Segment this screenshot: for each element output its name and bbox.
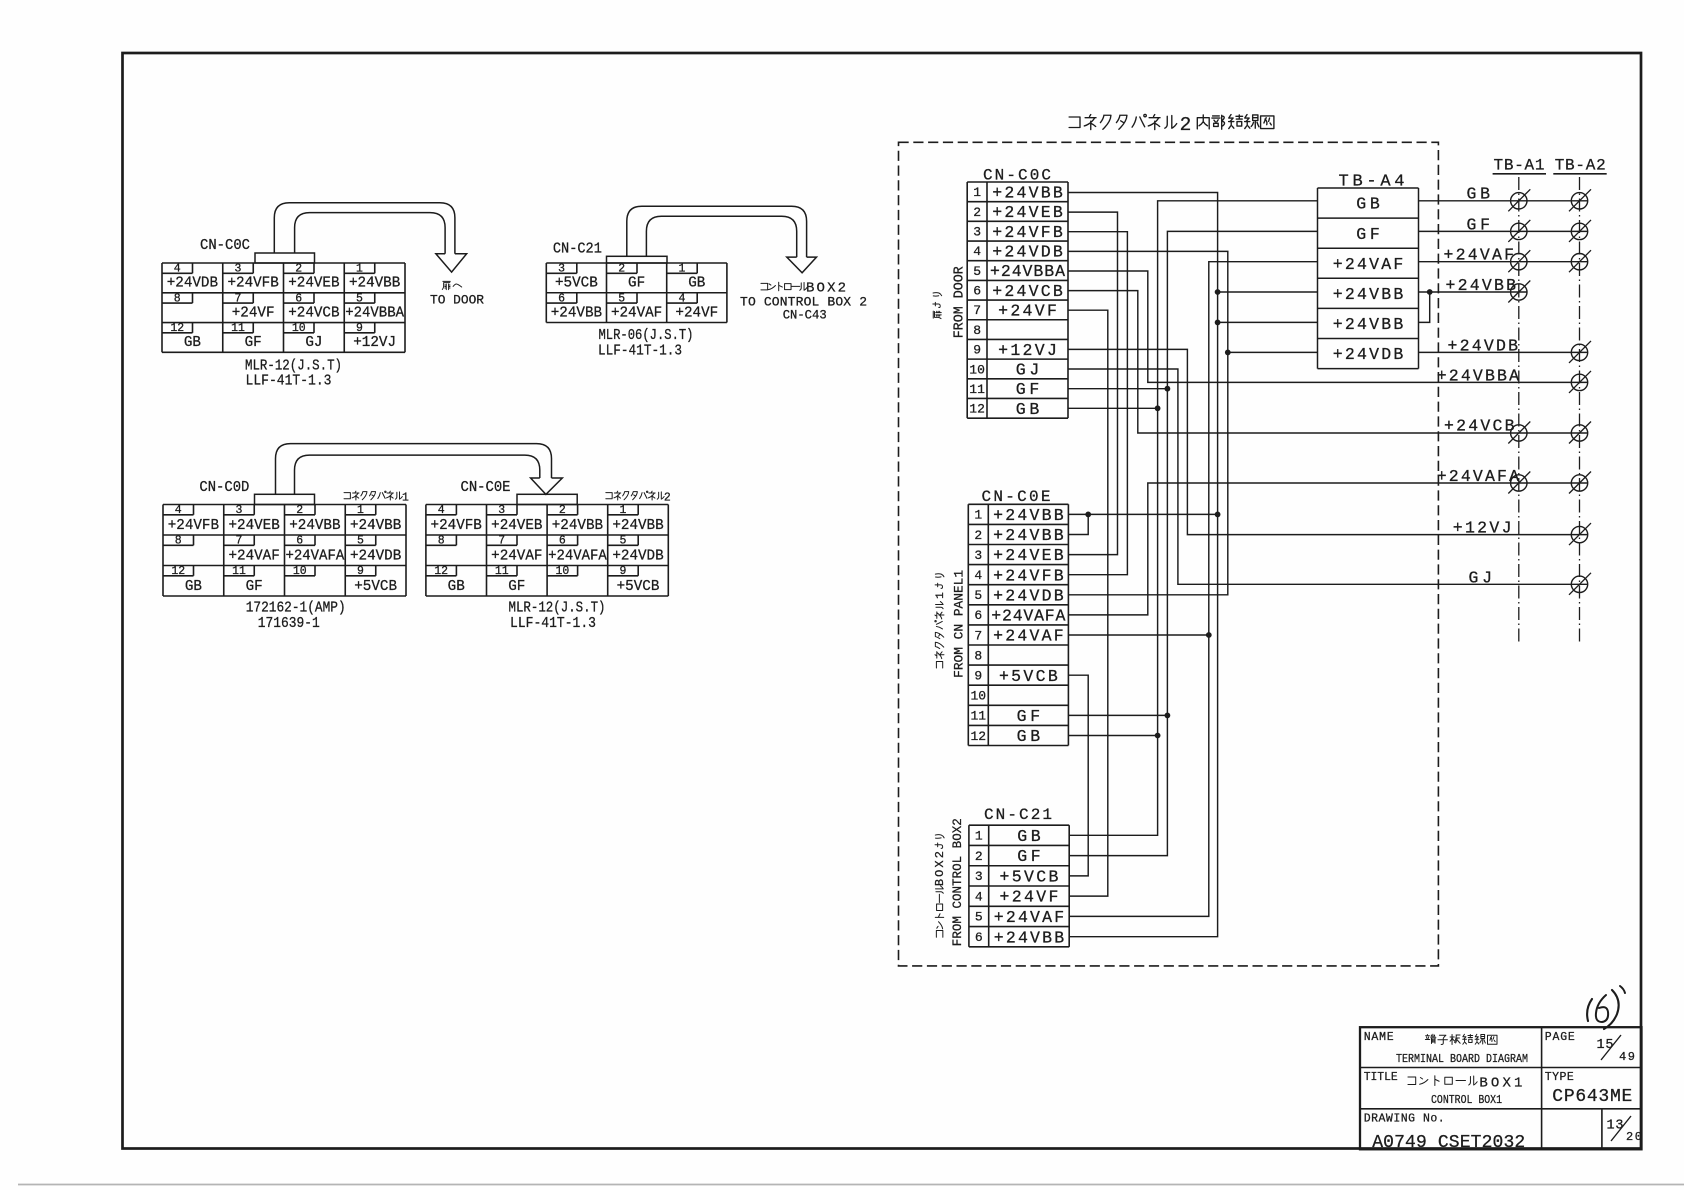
svg-text:4: 4 bbox=[973, 244, 981, 259]
svg-text:+24VF: +24VF bbox=[232, 305, 275, 321]
svg-text:12: 12 bbox=[171, 565, 185, 578]
svg-text:CN-C21: CN-C21 bbox=[553, 242, 602, 258]
svg-text:4: 4 bbox=[974, 568, 982, 583]
svg-text:7: 7 bbox=[498, 535, 505, 548]
svg-text:1: 1 bbox=[974, 508, 982, 523]
svg-text:10: 10 bbox=[969, 362, 985, 377]
svg-text:4: 4 bbox=[175, 504, 182, 517]
svg-text:+24VDB: +24VDB bbox=[167, 276, 219, 292]
svg-text:+5VCB: +5VCB bbox=[354, 579, 397, 595]
svg-text:1: 1 bbox=[678, 263, 685, 276]
svg-text:CN-C0D: CN-C0D bbox=[199, 480, 249, 496]
svg-text:9: 9 bbox=[619, 565, 626, 578]
svg-text:GB: GB bbox=[688, 276, 705, 292]
svg-text:TERMINAL BOARD DIAGRAM: TERMINAL BOARD DIAGRAM bbox=[1396, 1052, 1528, 1066]
svg-text:3: 3 bbox=[974, 548, 982, 563]
svg-text:+5VCB: +5VCB bbox=[555, 276, 598, 292]
svg-text:+24VAFA: +24VAFA bbox=[285, 548, 344, 564]
svg-text:PAGE: PAGE bbox=[1545, 1031, 1575, 1044]
svg-text:12: 12 bbox=[434, 565, 448, 578]
svg-text:+24VBB: +24VBB bbox=[552, 518, 604, 534]
svg-text:FROM DOOR: FROM DOOR bbox=[953, 266, 968, 338]
svg-text:5: 5 bbox=[975, 910, 983, 925]
svg-text:GF: GF bbox=[628, 276, 645, 292]
svg-text:+24VEB: +24VEB bbox=[288, 276, 340, 292]
svg-text:3: 3 bbox=[236, 504, 243, 517]
svg-text:2: 2 bbox=[975, 849, 983, 864]
svg-text:11: 11 bbox=[232, 565, 246, 578]
svg-text:6: 6 bbox=[973, 284, 981, 299]
svg-text:171639-1: 171639-1 bbox=[258, 616, 320, 632]
svg-text:11: 11 bbox=[969, 382, 985, 397]
svg-text:5: 5 bbox=[356, 292, 363, 305]
svg-text:3: 3 bbox=[973, 225, 981, 240]
svg-text:CN-C0E: CN-C0E bbox=[461, 480, 511, 496]
svg-text:+24VAF: +24VAF bbox=[491, 548, 542, 564]
svg-text:10: 10 bbox=[292, 322, 306, 335]
svg-text:1: 1 bbox=[935, 592, 947, 599]
svg-text:1: 1 bbox=[356, 263, 363, 276]
svg-text:9: 9 bbox=[357, 565, 364, 578]
svg-text:10: 10 bbox=[555, 565, 569, 578]
svg-text:+24VDB: +24VDB bbox=[350, 548, 402, 564]
svg-text:+24VFB: +24VFB bbox=[168, 518, 220, 534]
svg-text:+24VEB: +24VEB bbox=[228, 518, 280, 534]
svg-text:10: 10 bbox=[293, 565, 307, 578]
svg-text:8: 8 bbox=[174, 292, 181, 305]
svg-text:2: 2 bbox=[296, 504, 303, 517]
svg-text:GB: GB bbox=[448, 579, 465, 595]
svg-text:GB: GB bbox=[185, 579, 202, 595]
svg-text:+24VAF: +24VAF bbox=[228, 548, 279, 564]
svg-text:LLF-41T-1.3: LLF-41T-1.3 bbox=[246, 374, 332, 390]
svg-text:FROM CONTROL BOX2: FROM CONTROL BOX2 bbox=[950, 818, 965, 946]
svg-text:+24VBBA: +24VBBA bbox=[990, 262, 1065, 281]
svg-text:+24VFB: +24VFB bbox=[227, 276, 279, 292]
svg-text:5: 5 bbox=[357, 535, 364, 548]
svg-text:+24VBBA: +24VBBA bbox=[345, 305, 404, 321]
svg-text:7: 7 bbox=[974, 628, 982, 643]
svg-text:MLR-12(J.S.T): MLR-12(J.S.T) bbox=[509, 601, 606, 617]
svg-text:12: 12 bbox=[969, 402, 985, 417]
svg-text:3: 3 bbox=[558, 263, 565, 276]
svg-text:1: 1 bbox=[402, 492, 409, 505]
svg-text:7: 7 bbox=[236, 535, 243, 548]
svg-text:+24VBB: +24VBB bbox=[612, 518, 664, 534]
svg-text:6: 6 bbox=[296, 535, 303, 548]
svg-text:+24VAF: +24VAF bbox=[611, 305, 662, 321]
svg-text:1: 1 bbox=[973, 185, 981, 200]
svg-text:6: 6 bbox=[558, 292, 565, 305]
svg-text:1: 1 bbox=[975, 829, 983, 844]
svg-text:6: 6 bbox=[559, 535, 566, 548]
svg-text:+24VF: +24VF bbox=[675, 305, 718, 321]
svg-text:MLR-12(J.S.T): MLR-12(J.S.T) bbox=[245, 359, 342, 375]
svg-text:TB-A2: TB-A2 bbox=[1555, 157, 1606, 175]
svg-text:GB: GB bbox=[184, 335, 201, 351]
svg-text:TYPE: TYPE bbox=[1545, 1071, 1574, 1084]
svg-text:+12VJ: +12VJ bbox=[353, 335, 396, 351]
svg-text:2: 2 bbox=[559, 504, 566, 517]
svg-text:5: 5 bbox=[974, 588, 982, 603]
svg-text:2: 2 bbox=[295, 263, 302, 276]
svg-text:2: 2 bbox=[664, 492, 671, 505]
svg-text:9: 9 bbox=[974, 668, 982, 683]
svg-text:7: 7 bbox=[235, 292, 242, 305]
svg-text:TB-A1: TB-A1 bbox=[1494, 157, 1545, 175]
svg-text:4: 4 bbox=[174, 263, 181, 276]
svg-text:GF: GF bbox=[508, 579, 525, 595]
svg-text:13: 13 bbox=[1607, 1119, 1624, 1134]
svg-text:11: 11 bbox=[495, 565, 509, 578]
svg-text:NAME: NAME bbox=[1364, 1031, 1394, 1044]
svg-text:1: 1 bbox=[619, 504, 626, 517]
svg-text:8: 8 bbox=[175, 535, 182, 548]
svg-text:5: 5 bbox=[973, 264, 981, 279]
svg-text:9: 9 bbox=[356, 322, 363, 335]
svg-text:11: 11 bbox=[231, 322, 245, 335]
svg-text:+5VCB: +5VCB bbox=[1000, 867, 1059, 886]
svg-text:+24VBB: +24VBB bbox=[350, 518, 402, 534]
svg-text:A0749 CSET2032: A0749 CSET2032 bbox=[1372, 1133, 1525, 1153]
svg-text:+24VAFA: +24VAFA bbox=[991, 606, 1065, 625]
svg-text:7: 7 bbox=[973, 303, 981, 318]
svg-text:4: 4 bbox=[678, 292, 685, 305]
svg-text:+24VFB: +24VFB bbox=[431, 518, 483, 534]
svg-text:+5VCB: +5VCB bbox=[617, 579, 660, 595]
svg-text:CN-C0C: CN-C0C bbox=[200, 238, 250, 254]
svg-text:DRAWING No.: DRAWING No. bbox=[1364, 1112, 1445, 1125]
svg-text:CP643ME: CP643ME bbox=[1552, 1087, 1632, 1107]
svg-text:4: 4 bbox=[438, 504, 445, 517]
svg-text:12: 12 bbox=[170, 322, 184, 335]
svg-text:6: 6 bbox=[974, 608, 982, 623]
svg-text:3: 3 bbox=[498, 504, 505, 517]
svg-text:LLF-41T-1.3: LLF-41T-1.3 bbox=[598, 344, 682, 360]
svg-text:12: 12 bbox=[970, 729, 986, 744]
svg-text:2: 2 bbox=[974, 528, 982, 543]
svg-text:+24VEB: +24VEB bbox=[491, 518, 543, 534]
svg-text:3: 3 bbox=[235, 263, 242, 276]
svg-text:+24VAFA: +24VAFA bbox=[548, 548, 607, 564]
svg-text:5: 5 bbox=[619, 535, 626, 548]
svg-text:+24VDB: +24VDB bbox=[612, 548, 664, 564]
svg-text:20: 20 bbox=[1626, 1130, 1642, 1144]
svg-text:MLR-06(J.S.T): MLR-06(J.S.T) bbox=[599, 328, 694, 344]
svg-text:+24VF: +24VF bbox=[1000, 888, 1059, 907]
svg-text:+24VBB: +24VBB bbox=[349, 276, 401, 292]
svg-text:CONTROL BOX1: CONTROL BOX1 bbox=[1431, 1093, 1502, 1107]
svg-text:CN-C43: CN-C43 bbox=[783, 308, 827, 323]
svg-text:GF: GF bbox=[246, 579, 263, 595]
svg-text:GJ: GJ bbox=[305, 335, 322, 351]
svg-text:2: 2 bbox=[1180, 114, 1192, 136]
svg-text:10: 10 bbox=[970, 689, 986, 704]
svg-text:+24VBB: +24VBB bbox=[289, 518, 341, 534]
svg-text:4: 4 bbox=[975, 889, 983, 904]
svg-text:LLF-41T-1.3: LLF-41T-1.3 bbox=[510, 616, 596, 632]
svg-text:TITLE: TITLE bbox=[1364, 1071, 1398, 1084]
svg-text:6: 6 bbox=[975, 930, 983, 945]
svg-text:11: 11 bbox=[970, 709, 986, 724]
svg-text:3: 3 bbox=[975, 869, 983, 884]
svg-text:5: 5 bbox=[618, 292, 625, 305]
svg-text:TO DOOR: TO DOOR bbox=[430, 293, 484, 308]
svg-text:+24VBB: +24VBB bbox=[551, 305, 603, 321]
svg-text:FROM CN PANEL1: FROM CN PANEL1 bbox=[952, 570, 967, 678]
svg-text:6: 6 bbox=[295, 292, 302, 305]
svg-text:9: 9 bbox=[973, 343, 981, 358]
svg-text:+12VJ: +12VJ bbox=[998, 341, 1057, 360]
svg-text:GF: GF bbox=[245, 335, 262, 351]
svg-text:+24VF: +24VF bbox=[998, 302, 1057, 321]
svg-text:+5VCB: +5VCB bbox=[999, 667, 1058, 686]
svg-text:+24VCB: +24VCB bbox=[288, 305, 340, 321]
svg-text:2: 2 bbox=[973, 205, 981, 220]
svg-text:172162-1(AMP): 172162-1(AMP) bbox=[246, 601, 346, 617]
svg-text:1: 1 bbox=[357, 504, 364, 517]
svg-text:8: 8 bbox=[438, 535, 445, 548]
svg-text:49: 49 bbox=[1619, 1050, 1635, 1064]
svg-text:15: 15 bbox=[1597, 1038, 1614, 1053]
svg-text:8: 8 bbox=[973, 323, 981, 338]
svg-text:8: 8 bbox=[974, 648, 982, 663]
svg-text:2: 2 bbox=[618, 263, 625, 276]
